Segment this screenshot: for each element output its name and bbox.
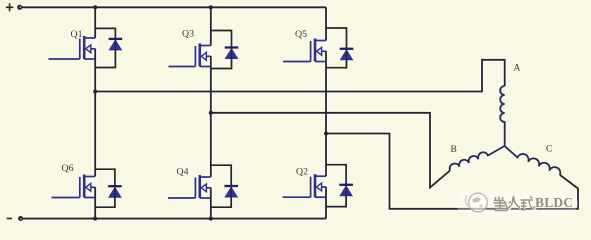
body diode D6 (95, 169, 122, 207)
minus terminal (7, 216, 24, 221)
svg-text:Q2: Q2 (296, 167, 308, 178)
top rail (+ bus) (22, 6, 327, 8)
winding B coil (450, 146, 505, 171)
body diode D4 (211, 165, 238, 207)
wire: Q5/Q2 half-bridge vertical bus (325, 7, 327, 218)
junction +rail/Q1 drain (93, 5, 97, 9)
transistor Q3 (169, 44, 211, 67)
transistor Q6 (52, 175, 96, 198)
bottom rail (- bus) (23, 218, 326, 220)
junction -rail/Q6 source (93, 217, 97, 221)
wire: Q3/Q4 half-bridge vertical bus (210, 7, 212, 218)
svg-text:Q5: Q5 (295, 29, 307, 40)
svg-text:BLDC: BLDC (535, 195, 573, 210)
watermark text 嵌入式BLDC (494, 197, 536, 212)
svg-text:Q4: Q4 (177, 167, 189, 178)
body diode D3 (211, 31, 239, 69)
svg-text:C: C (546, 145, 552, 155)
node phase C (324, 132, 328, 136)
wire: Q1/Q6 half-bridge vertical bus (94, 7, 96, 218)
node phase A (93, 90, 97, 94)
watermark halo (456, 191, 578, 215)
svg-text:B: B (451, 145, 457, 155)
winding C coil (505, 146, 561, 175)
transistor Q5 (283, 39, 326, 62)
watermark logo (466, 193, 488, 212)
wire: phase A to winding A (95, 60, 505, 92)
body diode D1 (95, 28, 122, 67)
svg-text:Q1: Q1 (71, 29, 83, 40)
svg-text:Q3: Q3 (182, 29, 194, 40)
svg-text:A: A (514, 64, 521, 74)
transistor Q1 (49, 36, 96, 59)
junction -rail/Q4 source (209, 217, 213, 221)
transistor Q4 (168, 175, 211, 198)
wire: phase C to winding C (326, 134, 578, 209)
transistor Q2 (283, 174, 327, 197)
body diode D5 (326, 28, 353, 68)
wire: phase B to winding B (211, 113, 450, 188)
node phase B (209, 111, 213, 115)
winding A coil (500, 86, 505, 146)
body diode D2 (326, 165, 353, 207)
plus terminal (6, 3, 22, 11)
svg-text:Q6: Q6 (62, 163, 74, 174)
junction +rail/Q3 drain (209, 5, 213, 9)
